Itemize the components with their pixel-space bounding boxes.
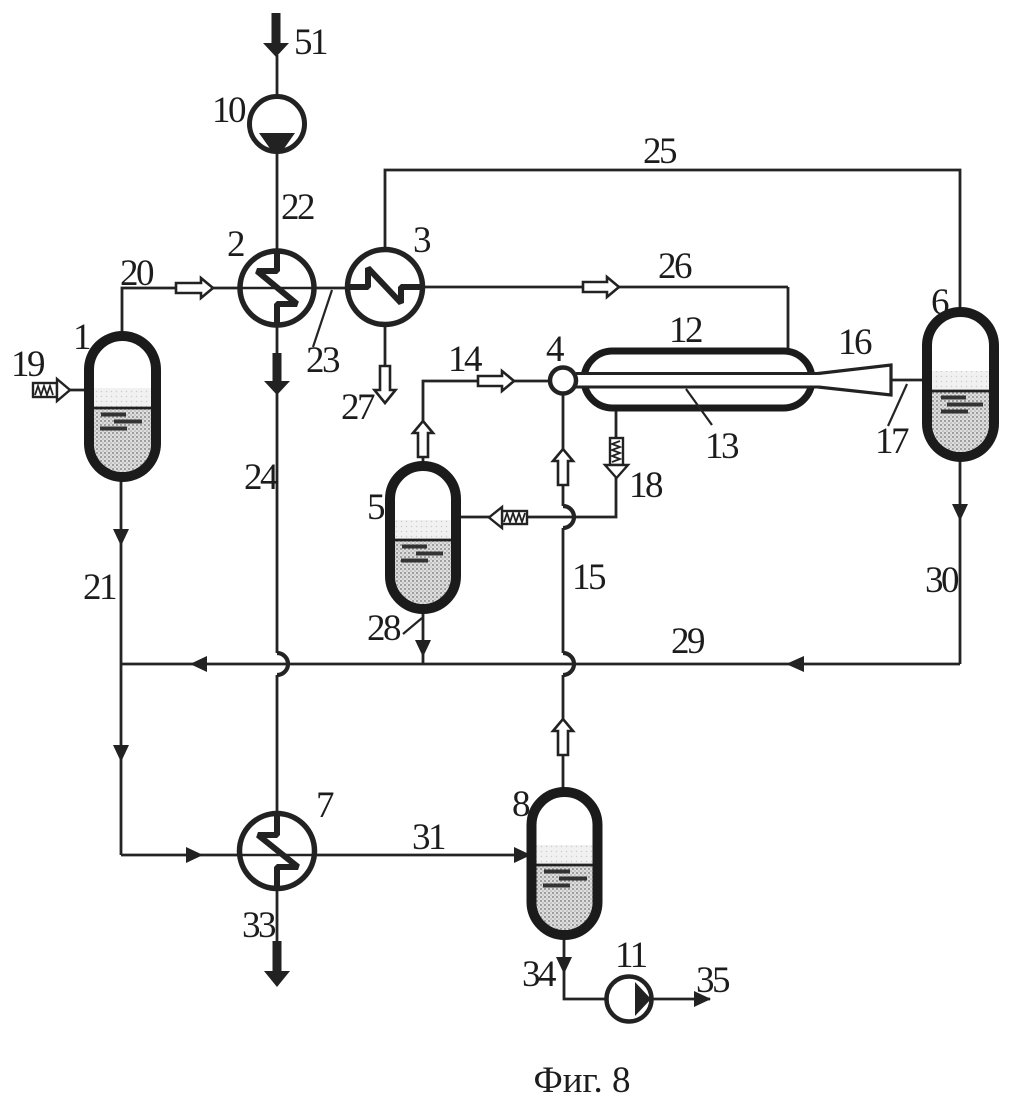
wire stream 26 drop into reactor 12 <box>787 287 790 351</box>
svg-text:16: 16 <box>838 322 872 363</box>
svg-text:2: 2 <box>227 224 244 265</box>
svg-text:28: 28 <box>367 608 401 649</box>
wire stream 29 main horizontal return line <box>121 663 960 666</box>
pointer line for label 23 <box>313 290 332 347</box>
wire stream 21/31 horizontal through heat-exchanger 7 to vessel 8 <box>121 854 531 857</box>
svg-text:5: 5 <box>367 487 385 528</box>
svg-text:13: 13 <box>705 426 739 467</box>
wire stream 27 below heat-exchanger 3 <box>384 324 387 366</box>
tube 13 through reactor <box>576 374 818 388</box>
pump 11 <box>607 977 652 1022</box>
svg-text:3: 3 <box>413 220 431 261</box>
open arrow on stream 14 horizontal <box>478 371 514 391</box>
wire stream 20 vessel 1 to heat-exchanger 2/3 horizontal <box>122 288 349 336</box>
svg-text:11: 11 <box>615 935 647 976</box>
solid arrowhead on stream 30 <box>952 504 968 521</box>
wire stream 33 below heat-exchanger 7 <box>276 889 279 942</box>
solid arrowhead on stream 21 into heat-exchanger 7 <box>186 847 203 863</box>
wire stream 51 into pump 10 <box>276 55 279 97</box>
svg-text:12: 12 <box>669 310 702 351</box>
solid arrowhead on stream 29 right <box>786 656 804 672</box>
svg-text:10: 10 <box>212 90 246 131</box>
open arrow on stream 20 <box>176 278 213 298</box>
svg-text:24: 24 <box>244 457 278 498</box>
hatched throttle arrow into vessel 5 pointing left <box>489 507 527 528</box>
solid thick arrow 51 <box>263 13 289 57</box>
open arrow on stream 26 <box>583 277 619 297</box>
hop of line 15 over line 18 branch <box>563 506 574 528</box>
wire stream 24 heat-exchanger 2 down to heat-exchanger 7 (gap at hop) <box>276 325 279 814</box>
svg-text:6: 6 <box>931 282 949 323</box>
svg-text:15: 15 <box>572 557 606 598</box>
svg-text:27: 27 <box>341 387 375 428</box>
node 4 mixing point <box>550 368 576 394</box>
svg-text:18: 18 <box>629 465 663 506</box>
wire stream 14 vessel 5 top up and right to node 4 <box>423 381 550 466</box>
svg-text:25: 25 <box>643 131 677 172</box>
hatched throttle arrow 18 pointing down <box>605 438 628 478</box>
wire stream 25 from heat-exchanger 3 top to vessel 6 top <box>385 170 960 313</box>
hop of line 24 over line 29 <box>277 653 288 675</box>
svg-text:35: 35 <box>696 960 730 1001</box>
vessel 1 <box>89 336 156 477</box>
solid arrowhead on stream 21 lower <box>113 745 129 762</box>
wire stream 35 pump 11 outlet <box>651 998 710 1001</box>
solid arrowhead on stream 29 left <box>190 656 207 672</box>
svg-text:17: 17 <box>875 421 909 462</box>
wire stream 21 below vessel 1 down to corner <box>120 477 123 855</box>
heat-exchanger 3 <box>348 250 423 325</box>
heat-exchanger 7 <box>240 814 315 889</box>
svg-text:21: 21 <box>83 567 116 608</box>
svg-text:7: 7 <box>316 785 334 826</box>
wire stream 19 into vessel 1 <box>69 389 89 392</box>
svg-text:19: 19 <box>11 344 44 385</box>
open arrow on stream 14 vertical riser from vessel 5 <box>413 421 433 457</box>
solid thick arrow 33 <box>264 941 290 987</box>
solid arrowhead on stream 34 <box>556 957 572 974</box>
wire stream 15 node 4 down to vessel 8 (gaps at hops) <box>562 393 565 792</box>
svg-text:14: 14 <box>448 339 482 380</box>
pointer tick for label 28 <box>403 618 422 634</box>
solid arrowhead on stream 31 into vessel 8 <box>514 847 531 863</box>
pump 10 <box>250 97 305 152</box>
open arrow on stream 15 upper <box>553 449 573 485</box>
svg-text:22: 22 <box>281 187 314 228</box>
vessel 6 <box>927 312 994 457</box>
pointer line for label 17 <box>888 384 907 426</box>
pointer line for label 13 <box>686 389 712 425</box>
vessel 5 <box>390 466 456 609</box>
wire between heat-exchanger 2 and 3 handled above; stream 23 continues <box>423 286 788 289</box>
svg-text:20: 20 <box>120 253 154 294</box>
svg-text:34: 34 <box>522 954 556 995</box>
svg-text:1: 1 <box>73 317 90 358</box>
hatched feed arrow 19 <box>33 379 70 401</box>
solid arrowhead on stream 28 <box>415 640 431 657</box>
open arrow on stream 27 pointing down <box>375 366 396 403</box>
svg-text:23: 23 <box>306 340 340 381</box>
svg-text:33: 33 <box>242 905 276 946</box>
heat-exchanger 2 <box>239 251 315 325</box>
vessel 8 <box>532 792 598 935</box>
hop of line 15 over line 29 <box>563 653 574 675</box>
svg-text:30: 30 <box>925 560 959 601</box>
nozzle 16 diffuser <box>818 365 891 395</box>
open arrow on stream 15 lower <box>553 719 573 755</box>
wire stream 30 vessel 6 bottom down to line 29 <box>959 457 962 664</box>
solid thick arrow on stream 24 <box>264 353 290 395</box>
svg-text:31: 31 <box>412 817 445 858</box>
wire stream 22 pump 10 to heat-exchanger 2 <box>276 152 279 252</box>
svg-text:29: 29 <box>671 621 704 662</box>
solid arrowhead on stream 21 upper <box>113 529 129 546</box>
svg-text:51: 51 <box>294 22 327 63</box>
svg-text:26: 26 <box>658 246 692 287</box>
wire nozzle 16 outlet into vessel 6 <box>892 379 927 382</box>
svg-text:8: 8 <box>512 784 530 825</box>
solid arrowhead on stream 35 <box>694 991 711 1007</box>
svg-text:Фиг. 8: Фиг. 8 <box>533 1060 630 1100</box>
wire stream 28 vessel 5 bottom to line 29 <box>422 609 425 664</box>
wire stream 18 reactor bottom down, left to vessel 5 <box>456 409 616 517</box>
reactor 12 horizontal capsule <box>584 351 812 408</box>
wire stream 34 vessel 8 bottom down and right to pump 11 <box>564 935 607 999</box>
svg-text:4: 4 <box>546 329 564 370</box>
